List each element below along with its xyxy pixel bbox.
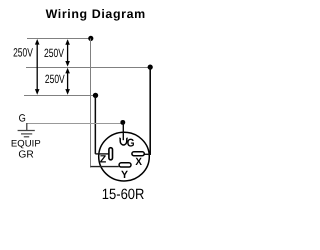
- voltage arrow line2-line3: [65, 68, 70, 95]
- svg-text:EQUIP: EQUIP: [11, 139, 41, 150]
- wire ground corner stub: [26, 123, 28, 130]
- svg-text:15-60R: 15-60R: [102, 187, 145, 203]
- svg-text:250V: 250V: [13, 46, 33, 60]
- terminal G slot (ground U slot): [119, 138, 127, 145]
- terminal X slot: [132, 152, 144, 156]
- svg-text:G: G: [127, 137, 135, 149]
- svg-text:250V: 250V: [44, 46, 64, 60]
- node ground junction dot: [120, 120, 125, 125]
- ground symbol bar 3: [24, 136, 29, 138]
- ground symbol bar 1: [18, 130, 35, 132]
- node junction dot line2: [148, 65, 153, 70]
- wire phase line 2 (middle bus): [26, 67, 150, 69]
- terminal Z slot: [109, 148, 113, 160]
- wire into Y terminal: [91, 166, 119, 168]
- wire vertical from line3 down: [94, 95, 96, 153]
- receptacle outline: [99, 132, 150, 181]
- terminal Y slot: [119, 163, 131, 167]
- node junction dot line3: [93, 93, 98, 98]
- voltage arrow line1-line3: [35, 39, 40, 95]
- ground symbol bar 2: [21, 133, 32, 135]
- svg-text:X: X: [135, 156, 142, 168]
- svg-text:Z: Z: [100, 154, 107, 166]
- wire ground horizontal to receptacle: [27, 123, 121, 125]
- wire into Z terminal: [95, 153, 108, 155]
- wire into X terminal: [145, 153, 151, 155]
- wire vertical from line1 down: [90, 38, 92, 167]
- svg-text:250V: 250V: [45, 72, 65, 86]
- wire ground drop to G terminal: [122, 122, 124, 140]
- svg-text:Y: Y: [121, 169, 128, 181]
- svg-text:G: G: [19, 112, 26, 124]
- svg-text:GR: GR: [18, 150, 33, 161]
- wire phase line 1 (top bus): [27, 38, 91, 40]
- wire phase line 3 (bottom bus): [24, 95, 96, 97]
- node junction dot line1: [88, 36, 93, 41]
- voltage arrow line1-line2: [65, 39, 70, 66]
- svg-text:Wiring Diagram: Wiring Diagram: [46, 7, 146, 21]
- wire vertical from line2 down: [149, 67, 151, 155]
